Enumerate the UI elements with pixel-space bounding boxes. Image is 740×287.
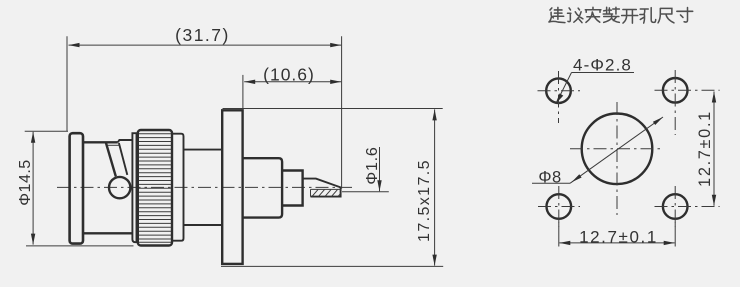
center hole crosshairs: [570, 102, 663, 215]
crosshair bottom-left: [538, 186, 580, 227]
label phi8 leader underline: [532, 182, 570, 184]
开: [622, 9, 638, 23]
dim (31.7) line: [69, 43, 342, 47]
dim phi14.5 top extension: [25, 130, 68, 132]
dim 12.7 bottom line: [559, 241, 674, 245]
dim 12.7 right text: [696, 110, 714, 187]
nut left collar: [132, 133, 136, 242]
label phi8 diameter line: [570, 117, 663, 183]
svg-text:Φ1.6: Φ1.6: [364, 146, 381, 184]
dim (31.7) text: [175, 25, 230, 45]
rear barrel top edge: [184, 149, 223, 151]
svg-text:12.7±0.1: 12.7±0.1: [696, 110, 714, 187]
crosshair top-left: [538, 71, 581, 123]
dim (31.7) right extension (to pin tip): [341, 36, 343, 188]
dim 17.5x17.5 text: [416, 159, 433, 242]
dim 12.7 bottom text: [579, 228, 658, 247]
nut rear rim: [172, 134, 183, 241]
孔: [640, 8, 656, 23]
svg-text:(10.6): (10.6): [263, 65, 315, 85]
dim phi1.6 extension: [342, 191, 389, 193]
议: [568, 8, 583, 23]
title 建议安装开孔尺寸 (drawn strokes): [549, 7, 693, 23]
hole circle bottom-right: [663, 194, 688, 219]
svg-text:Φ14.5: Φ14.5: [17, 159, 34, 205]
bayonet slot diagonal 1: [106, 143, 116, 176]
dim 12.7 bottom extensions: [559, 222, 675, 247]
dim phi14.5 text: [17, 159, 34, 205]
label phi8 text: [538, 169, 561, 187]
solder cup opening: [311, 189, 341, 196]
装: [603, 7, 619, 22]
label 4-phi2.8 leader: [556, 73, 634, 104]
knurl lines: [139, 134, 171, 243]
dim (10.6) line: [244, 80, 341, 84]
rear small cylinder: [282, 171, 303, 206]
bayonet slot inner edge: [108, 144, 120, 146]
安: [585, 7, 601, 22]
尺: [658, 8, 674, 23]
centerline left view: [57, 186, 354, 188]
front bayonet flange: [70, 133, 83, 243]
insulator cylinder: [243, 158, 283, 217]
mounting flange plate: [222, 110, 242, 264]
rear barrel bottom edge: [184, 224, 223, 226]
svg-text:4-Φ2.8: 4-Φ2.8: [573, 56, 632, 75]
bayonet step lip: [118, 140, 132, 142]
body tube top edge: [84, 141, 118, 143]
dim phi14.5 line: [31, 132, 35, 245]
dim (10.6) left extension: [242, 75, 244, 110]
dim 17.5x17.5 line: [432, 109, 436, 265]
dim (31.7) left extension: [66, 36, 68, 131]
建: [549, 7, 565, 22]
hole circle top-right: [663, 78, 688, 103]
寸: [677, 7, 693, 22]
contact pin top: [303, 179, 341, 197]
hole circle top-left: [546, 78, 571, 103]
crosshair bottom-right: [655, 186, 720, 227]
label 4-phi2.8 text: [573, 56, 632, 75]
dim 17.5x17.5 bottom extension: [221, 265, 443, 267]
solder cup hatching: [312, 190, 341, 197]
dim 17.5x17.5 top extension: [223, 108, 443, 110]
knurled coupling nut drum: [138, 130, 172, 246]
svg-text:17.5x17.5: 17.5x17.5: [416, 159, 433, 242]
dim 12.7 right line: [712, 92, 716, 206]
bayonet slot diagonal 2: [119, 143, 127, 175]
crosshair top-right: [655, 70, 720, 135]
dim phi1.6 line: [377, 147, 381, 191]
body tube bottom edge: [84, 232, 132, 234]
dim phi1.6 text: [364, 146, 381, 184]
bayonet pin circle: [109, 177, 130, 198]
dim (10.6) text: [263, 65, 315, 85]
svg-text:(31.7): (31.7): [175, 25, 230, 45]
center hole circle: [582, 114, 653, 185]
hole circle bottom-left: [547, 194, 572, 219]
dim phi14.5 bottom extension: [26, 245, 134, 247]
svg-text:12.7±0.1: 12.7±0.1: [579, 228, 658, 247]
